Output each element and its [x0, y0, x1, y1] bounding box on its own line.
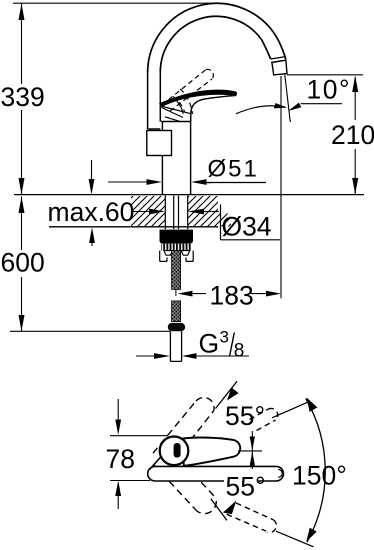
faucet body column — [161, 122, 191, 195]
hose axis tick — [175, 290, 177, 297]
10 degree tilted line — [285, 75, 291, 122]
top reference line — [13, 2, 218, 4]
G3/8 threaded tube — [170, 331, 181, 361]
dashed lever ghost up (plan) — [153, 397, 214, 453]
dimension Ø34 right arrow — [204, 211, 219, 213]
spout capsule inner cap — [278, 469, 282, 477]
svg-text:210: 210 — [331, 120, 374, 150]
svg-text:150°: 150° — [292, 461, 347, 491]
lever handle (side view, filled) — [159, 90, 237, 108]
lower radial polyline — [211, 499, 227, 521]
dimension 339 line — [21, 3, 23, 195]
dimension Ø34 left arrow — [132, 211, 150, 213]
arc arrowhead bottom — [306, 528, 316, 542]
dimension 210 — [354, 77, 356, 195]
spout inner arc — [160, 16, 270, 72]
svg-text:3: 3 — [220, 328, 229, 347]
dimension 183 — [193, 293, 267, 295]
hose end reference line — [10, 330, 170, 332]
lower 55 arrowhead — [223, 500, 237, 514]
svg-text:55°: 55° — [226, 471, 266, 501]
lever neck curve — [191, 95, 236, 121]
spout aerator — [272, 60, 287, 75]
curved arrow 10deg — [236, 106, 285, 114]
upper 55 radial line — [216, 381, 238, 408]
spout riser tube — [148, 72, 161, 129]
svg-text:G: G — [199, 329, 220, 359]
dimension 339 arrow down — [19, 178, 25, 195]
mounting nut knurl — [161, 244, 192, 251]
dimension 600 arrow up — [19, 197, 25, 214]
dimension Ø51 leader underline — [204, 182, 266, 184]
outlet height reference line — [287, 74, 363, 76]
cartridge dome lines — [161, 101, 191, 121]
spout collar block — [147, 131, 172, 156]
mounting bracket tabs — [164, 251, 173, 256]
dimension 78 extension lines — [110, 436, 168, 481]
svg-text:8: 8 — [234, 341, 245, 362]
svg-text:Ø34: Ø34 — [222, 212, 272, 242]
countertop bottom line — [49, 226, 218, 228]
dashed raised lever ghost — [162, 69, 213, 114]
hose end fitting — [168, 323, 185, 331]
dimension max.60 arrow down — [91, 160, 93, 179]
svg-text:Ø51: Ø51 — [208, 156, 259, 183]
mounting nut cap — [160, 230, 194, 244]
dimension max.60 arrow up — [91, 242, 93, 246]
lower dashed spout ghost — [227, 503, 277, 533]
upper 55 arrowhead — [227, 388, 239, 401]
spout outer arc — [148, 3, 286, 72]
svg-text:10°: 10° — [307, 75, 352, 105]
spout axis vertical line — [280, 76, 282, 298]
lever arm (plan) — [181, 438, 240, 466]
svg-text:339: 339 — [1, 82, 45, 112]
dimension 78 arrows — [117, 399, 119, 509]
countertop top line — [14, 194, 364, 196]
label 55 lower — [224, 477, 257, 499]
10 degree leader — [301, 103, 342, 105]
dimension G3/8 arrows — [136, 355, 249, 357]
dashed lever ghost down (plan) — [154, 465, 217, 514]
mounting bracket sides — [160, 251, 194, 262]
lever hub (plan) — [160, 437, 189, 466]
shank through countertop — [165, 196, 187, 230]
dimension 600 arrow down — [19, 315, 25, 331]
svg-text:600: 600 — [1, 248, 45, 278]
upper dashed spout ghost — [250, 408, 278, 430]
spout outlet rings — [271, 57, 286, 63]
dimension Ø51 right arrow — [207, 182, 213, 184]
svg-text:max.60: max.60 — [48, 197, 135, 227]
dimension Ø34 leader — [221, 205, 281, 240]
countertop hatching — [131, 196, 231, 227]
svg-text:55°: 55° — [225, 401, 265, 431]
svg-text:183: 183 — [210, 280, 254, 310]
dimension Ø51 left arrow — [108, 181, 147, 183]
flexible hose braid lower — [172, 301, 181, 322]
dimension 339 arrow up — [19, 4, 25, 21]
svg-text:78: 78 — [106, 444, 135, 474]
dimension 600 line — [21, 197, 23, 332]
flexible hose braid upper — [172, 251, 181, 290]
arc arrowhead top — [307, 398, 318, 412]
hub-to-spout transition line — [150, 453, 165, 469]
spout capsule (plan) — [148, 466, 284, 481]
upper radial to arc — [272, 402, 308, 418]
hub screw slot — [174, 443, 181, 458]
55 degree double arrow — [251, 431, 253, 469]
150 degree arc — [306, 399, 325, 543]
